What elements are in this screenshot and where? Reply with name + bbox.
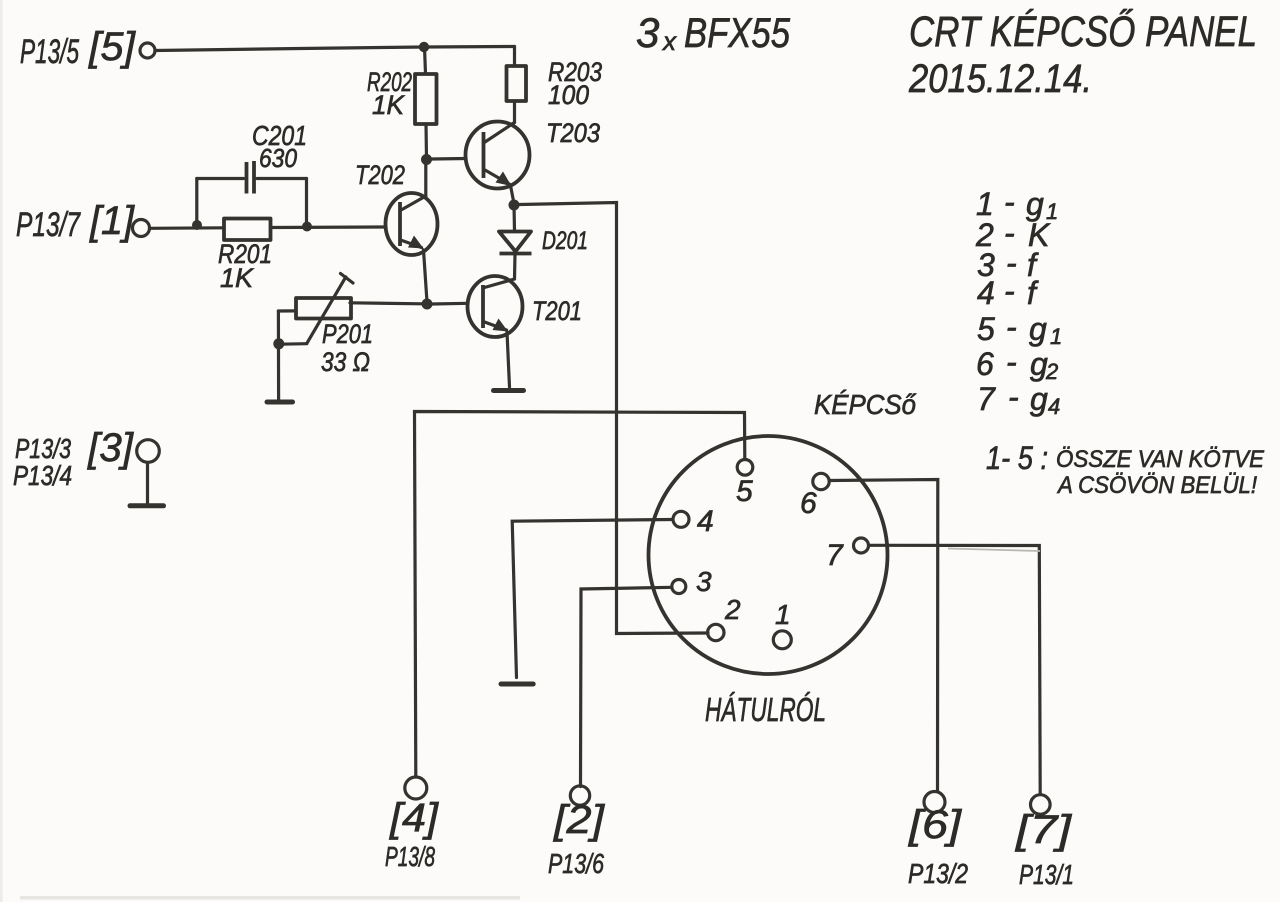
svg-text:D201: D201	[542, 227, 588, 255]
resistor R201	[218, 219, 272, 294]
svg-text:A CSÖVÖN BELÜL!: A CSÖVÖN BELÜL!	[1056, 472, 1257, 499]
faint double stroke on pin 7 wire	[948, 549, 1040, 552]
diode D201	[499, 205, 588, 279]
svg-text:P13/7: P13/7	[16, 206, 81, 244]
svg-text:[7]: [7]	[1015, 808, 1072, 852]
terminal [4] P13/8	[385, 777, 439, 872]
svg-text:3: 3	[696, 566, 712, 597]
terminal P13/3 P13/4 [3] with ground	[13, 426, 164, 506]
transistor T202	[355, 160, 438, 299]
svg-text:[5]: [5]	[88, 25, 136, 69]
svg-text:1: 1	[775, 599, 791, 630]
tube pin 4	[673, 505, 714, 538]
wire P13/5 to R203 top corner	[155, 47, 515, 51]
terminal [6] P13/2	[908, 792, 969, 890]
svg-text:CRT KÉPCSŐ PANEL: CRT KÉPCSŐ PANEL	[909, 8, 1257, 56]
wire pin 4 to ground	[512, 520, 673, 678]
svg-text:[1]: [1]	[89, 199, 135, 243]
svg-text:[4]: [4]	[389, 796, 439, 840]
svg-text:100: 100	[548, 80, 589, 110]
svg-text:2015.12.14.: 2015.12.14.	[908, 57, 1092, 101]
wire T203 base	[432, 157, 466, 161]
tube pin 6	[800, 473, 829, 520]
wire pin 3 to terminal [2]	[581, 587, 672, 786]
wire T201 base	[432, 302, 468, 306]
potentiometer P201	[273, 274, 373, 401]
svg-text:P13/1: P13/1	[1019, 859, 1074, 890]
wire P13/7 to R201	[150, 226, 225, 230]
svg-text:1K: 1K	[372, 90, 405, 120]
wire R201 to T202 base	[271, 225, 386, 229]
svg-text:P13/6: P13/6	[548, 848, 604, 879]
svg-text:HÁTULRÓL: HÁTULRÓL	[705, 691, 826, 728]
svg-text:7: 7	[826, 539, 844, 572]
svg-text:33 Ω: 33 Ω	[321, 347, 370, 377]
svg-text:ÖSSZE VAN KÖTVE: ÖSSZE VAN KÖTVE	[1056, 446, 1265, 473]
svg-text:[2]: [2]	[553, 798, 605, 842]
terminal P13/5 [5]	[20, 25, 155, 71]
wire pin 7 to terminal [7]	[869, 545, 1040, 794]
svg-text:1- 5 :: 1- 5 :	[986, 440, 1048, 476]
ground below P201	[267, 400, 293, 405]
ground below T201	[494, 388, 524, 393]
svg-text:630: 630	[259, 143, 297, 173]
wire pin 6 to terminal [6]	[830, 480, 938, 792]
tube pin 5	[736, 460, 753, 509]
note 1-5 osszekotve	[986, 440, 1265, 499]
svg-text:4: 4	[697, 505, 714, 538]
wire P201 to junction	[350, 303, 422, 304]
node junction dot R202/T202/T203 base	[421, 154, 432, 165]
title 3 x BFX55	[636, 9, 791, 56]
wire emitter junction to tube pin 2	[520, 203, 709, 634]
svg-text:[3]: [3]	[87, 426, 134, 470]
node junction dot T202 emitter / T201 base / P201	[422, 299, 433, 310]
svg-text:7-g4: 7-g4	[977, 379, 1060, 419]
node junction dot C201 left	[192, 220, 202, 230]
tube pin 2	[708, 594, 741, 641]
svg-text:P13/2: P13/2	[908, 858, 968, 889]
tube pin 1	[773, 599, 791, 649]
svg-text:P13/8: P13/8	[385, 841, 435, 872]
svg-text:KÉPCSő: KÉPCSő	[814, 389, 916, 420]
svg-text:6: 6	[800, 487, 817, 520]
transistor T201	[468, 276, 583, 387]
node junction dot at top wire / R202	[419, 42, 429, 52]
terminal [7] P13/1	[1015, 795, 1074, 890]
svg-text:T203: T203	[546, 118, 600, 148]
terminal [2] P13/6	[548, 786, 605, 879]
svg-text:x: x	[661, 26, 677, 56]
node junction dot C201 right	[302, 222, 312, 232]
svg-text:P201: P201	[322, 319, 373, 349]
svg-text:P13/4: P13/4	[13, 460, 72, 491]
resistor R202	[367, 47, 437, 159]
terminal P13/7 [1]	[16, 199, 150, 244]
svg-text:BFX55: BFX55	[684, 9, 791, 56]
tube pin 3	[672, 566, 712, 597]
svg-text:2: 2	[724, 594, 741, 625]
svg-text:P13/5: P13/5	[20, 33, 79, 71]
tube pin 7	[826, 538, 869, 572]
transistor T203	[466, 118, 601, 201]
resistor R203	[507, 47, 603, 123]
svg-text:1K: 1K	[220, 263, 254, 293]
node junction dot T203 emitter / D201	[509, 200, 520, 211]
svg-text:5: 5	[736, 475, 753, 508]
svg-text:T202: T202	[355, 160, 405, 190]
tube circle	[649, 436, 888, 674]
wire [4] terminal up and over to pin 5	[415, 412, 745, 778]
svg-text:[6]: [6]	[908, 803, 962, 847]
svg-text:3: 3	[636, 9, 659, 56]
svg-text:4-f: 4-f	[977, 273, 1039, 311]
ground below pin 4 wire	[501, 682, 533, 687]
svg-text:T201: T201	[532, 296, 582, 326]
capacitor C201	[197, 120, 307, 222]
